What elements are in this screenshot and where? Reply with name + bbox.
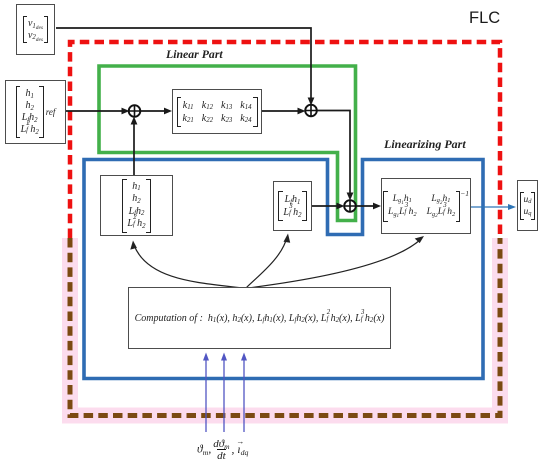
computation box G	[128, 287, 391, 349]
green box (Linear Part) with notch	[99, 66, 356, 221]
arrowhead into K box	[164, 108, 172, 115]
curved arrow comp box to D box	[246, 237, 287, 288]
wire: sum3 to Lg matrix box	[356, 205, 378, 207]
blue input arrow 2	[223, 356, 225, 432]
arrowhead into sum2 left	[298, 108, 306, 115]
Linearizing Part label	[384, 137, 466, 152]
wire: D box to sum3	[312, 205, 342, 207]
Linear Part label	[166, 47, 223, 62]
box D [Lfh1;L3fh2]	[273, 181, 312, 231]
bottom input label	[197, 438, 248, 462]
box C feedback [h1;h2;Lfh2;L2fh2]	[100, 175, 173, 236]
blue input arrow 1	[205, 356, 207, 432]
summing junction sum3	[344, 200, 356, 212]
curved arrow comp box to Lg box	[248, 239, 421, 288]
wire: vdes box to sum2	[56, 28, 311, 100]
wire: sum1 to K box	[140, 110, 169, 112]
wire: feedback C box top up to sum1	[133, 119, 135, 175]
blue output arrow to ud/uq box	[471, 206, 510, 208]
box E Lg matrix inverse	[381, 178, 471, 234]
arrowhead into sum3 top	[347, 193, 354, 201]
wire: sum2 right, down to sum3	[317, 111, 351, 199]
box F [ud;uq]	[517, 180, 538, 231]
box ref [h1;h2;Lfh2;L2fh2]ref	[5, 80, 66, 144]
wire: ref box to sum1	[66, 110, 127, 112]
FLC label	[469, 9, 500, 28]
brown dashed border (lower part)	[70, 238, 500, 416]
box vdes [v1des;v2des]	[16, 4, 55, 55]
arrowhead into Lg box	[373, 203, 381, 210]
red dashed border (FLC box, upper part)	[70, 42, 500, 238]
arrowhead into sum1 bottom	[131, 117, 138, 125]
pink glow band behind brown dashed border	[70, 238, 500, 416]
blue box (Linearizing Part) with notch	[84, 160, 483, 379]
summing junction sum1	[129, 105, 141, 117]
box K matrix	[172, 89, 262, 134]
wire: K box to sum2	[262, 110, 303, 112]
summing junction sum2	[305, 105, 317, 117]
curved arrow comp box to C box	[134, 245, 242, 288]
arrowhead into sum2 top	[308, 98, 315, 106]
blue input arrow 3	[243, 356, 245, 432]
arrowhead into sum1 left	[122, 108, 130, 115]
arrowhead into sum3 left	[337, 203, 345, 210]
